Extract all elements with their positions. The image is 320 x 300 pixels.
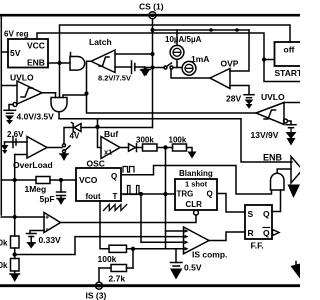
wire IS comp output to FF R bbox=[209, 232, 245, 241]
arrow FF Qbar output bbox=[273, 230, 280, 236]
bottom border of IC block bbox=[0, 284, 300, 287]
node 100k/2.7k bbox=[131, 247, 135, 251]
node G1-output / line1 junction bbox=[84, 91, 88, 95]
wire one-shot Q to FF S bbox=[217, 194, 245, 213]
comparator UVLO1 bbox=[10, 73, 42, 105]
comparator OVP bbox=[210, 59, 239, 89]
svg-text:off: off bbox=[284, 45, 295, 55]
svg-text:5pF: 5pF bbox=[40, 194, 55, 204]
driver output buffer bbox=[288, 157, 303, 199]
svg-text:Latch: Latch bbox=[89, 37, 112, 47]
svg-text:28V: 28V bbox=[226, 94, 241, 104]
node VCO control bbox=[163, 145, 167, 149]
pin IS (3) bbox=[86, 268, 107, 300]
resistor 300k bbox=[136, 136, 157, 152]
svg-text:Q: Q bbox=[263, 209, 270, 219]
block startup off/START bbox=[275, 42, 304, 78]
svg-text:S: S bbox=[248, 209, 254, 219]
wire ENB vertical to G2 bbox=[59, 63, 61, 98]
svg-text:100k: 100k bbox=[98, 254, 117, 264]
wire VCC top rail y=33 bbox=[37, 33, 300, 82]
wire fout column bbox=[100, 201, 109, 249]
wire 5V input from left bbox=[1, 51, 8, 53]
resistor 1Meg bbox=[1, 177, 76, 195]
svg-text:VCC: VCC bbox=[27, 41, 45, 51]
wire OVP output to switch bbox=[171, 69, 210, 78]
switch 1mA bbox=[164, 63, 182, 69]
wire G3 output to driver bbox=[277, 169, 291, 173]
node CS rail bbox=[150, 28, 154, 32]
node CS / latch input bbox=[150, 52, 154, 56]
svg-text:T: T bbox=[113, 192, 118, 201]
wire CS vertical bbox=[152, 19, 154, 128]
node buf tap bbox=[95, 125, 99, 129]
wire G2 output line2 bbox=[59, 112, 292, 162]
svg-text:CS (1): CS (1) bbox=[139, 2, 164, 12]
wire ENB output bbox=[48, 62, 70, 64]
wire ENB top rail y=25 bbox=[60, 25, 291, 63]
reference 8.2V/7.5V battery bbox=[98, 61, 145, 83]
wire startup box feed bbox=[264, 59, 275, 61]
wire UVLO2 + input bbox=[284, 102, 300, 104]
svg-text:R: R bbox=[248, 228, 254, 238]
svg-text:Q: Q bbox=[111, 172, 117, 181]
diode buf output bbox=[120, 144, 137, 152]
top border of IC block bbox=[0, 14, 300, 17]
ground CS left bbox=[142, 68, 150, 77]
comparator IS comp bbox=[184, 227, 228, 260]
diode 4V zener bbox=[70, 123, 82, 141]
wire buf input bbox=[98, 127, 102, 148]
svg-text:4V: 4V bbox=[70, 132, 80, 141]
reference 4.0V/3.5V battery bbox=[4, 103, 54, 125]
wire node down to 2.7k bbox=[132, 249, 134, 268]
svg-text:0.5V: 0.5V bbox=[184, 263, 202, 273]
svg-text:4.0V/3.5V: 4.0V/3.5V bbox=[17, 112, 55, 122]
svg-text:1Meg: 1Meg bbox=[25, 184, 47, 194]
capacitor 5pF bbox=[40, 180, 66, 205]
svg-text:-: - bbox=[46, 224, 49, 233]
svg-text:x1: x1 bbox=[104, 148, 112, 157]
comparator Latch bbox=[89, 37, 115, 73]
svg-text:UVLO: UVLO bbox=[10, 73, 34, 83]
reference 13V/9V battery bbox=[251, 119, 297, 146]
svg-text:10µA/5µA: 10µA/5µA bbox=[165, 35, 202, 44]
reference 0.33V battery bbox=[27, 231, 62, 249]
resistor 100k top bbox=[169, 136, 187, 152]
ground 100k bbox=[187, 148, 197, 159]
svg-text:1 shot: 1 shot bbox=[185, 180, 208, 189]
svg-text:0.33V: 0.33V bbox=[39, 235, 62, 245]
wire latch output to G1 bbox=[87, 61, 92, 93]
svg-text:Buf: Buf bbox=[104, 129, 118, 139]
wire ramp to IS comp input C bbox=[141, 194, 184, 242]
wire IS comp input A bbox=[166, 230, 184, 232]
svg-text:OverLoad: OverLoad bbox=[13, 160, 53, 170]
svg-text:ENB: ENB bbox=[27, 58, 45, 68]
svg-text:5V: 5V bbox=[10, 48, 21, 58]
waveform sawtooth fout bbox=[104, 205, 127, 211]
ground for 8.2V reference bbox=[141, 67, 149, 77]
ground discharge switch bbox=[60, 153, 68, 161]
wire OVP + input bbox=[230, 30, 249, 71]
divider resistor 20k top bbox=[0, 236, 19, 248]
svg-text:VCO: VCO bbox=[79, 175, 98, 185]
wire UVLO1 + input bbox=[1, 85, 17, 87]
wire OSC T to TRG bbox=[121, 193, 175, 195]
svg-text:CLR: CLR bbox=[186, 200, 203, 209]
svg-text:OSC: OSC bbox=[87, 159, 105, 169]
and-gate G1 (latch gate) bbox=[70, 53, 85, 71]
buffer Buf x1 bbox=[101, 129, 120, 159]
wire PWM + input bbox=[1, 216, 44, 218]
oscillator VCO/OSC block bbox=[76, 159, 121, 202]
svg-text:Q: Q bbox=[263, 228, 270, 238]
comparator 0.33V PWM bbox=[44, 213, 61, 234]
svg-text:8.2V/7.5V: 8.2V/7.5V bbox=[98, 74, 131, 83]
wire line2 stub to buf tap bbox=[97, 119, 99, 127]
node 5pF bbox=[59, 178, 63, 182]
svg-text:Blanking: Blanking bbox=[179, 169, 213, 178]
node 1Meg left bbox=[13, 178, 17, 182]
reference 28V battery bbox=[226, 94, 254, 109]
wire 300k to 100k bbox=[157, 147, 173, 149]
divider resistor 20k bottom bbox=[0, 259, 19, 272]
svg-text:100k: 100k bbox=[169, 136, 187, 145]
svg-text:13V/9V: 13V/9V bbox=[251, 130, 279, 140]
svg-text:OVP: OVP bbox=[221, 59, 239, 69]
svg-text:START: START bbox=[275, 68, 301, 78]
wire UVLO1 output to G2 bbox=[42, 92, 56, 94]
svg-text:IS comp.: IS comp. bbox=[192, 250, 227, 260]
svg-text:ENB: ENB bbox=[263, 153, 283, 163]
flip-flop F.F. box bbox=[245, 205, 272, 251]
wire OVP - input bbox=[230, 86, 249, 95]
regulator 6V reg box bbox=[4, 30, 48, 68]
svg-text:Q: Q bbox=[207, 190, 213, 199]
wire VCO node column bbox=[165, 148, 167, 249]
svg-text:2.7k: 2.7k bbox=[109, 274, 126, 284]
ground divider bbox=[10, 271, 20, 282]
comparator UVLO2 bbox=[256, 92, 285, 125]
reference 0.5V battery bbox=[170, 249, 202, 280]
svg-text:2.6V: 2.6V bbox=[7, 130, 24, 139]
svg-text:fout: fout bbox=[86, 192, 101, 201]
svg-text:0k: 0k bbox=[0, 261, 8, 270]
current source 1mA bbox=[182, 54, 209, 75]
wire line1 to UVLO2 output bbox=[87, 94, 257, 114]
node T/ramp bbox=[139, 192, 143, 196]
node rail OVP bbox=[235, 28, 239, 32]
wire divider column bbox=[14, 248, 16, 259]
resistor 2.7k bbox=[99, 265, 133, 284]
svg-text:TRG: TRG bbox=[177, 190, 194, 199]
one-shot Blanking block bbox=[175, 169, 217, 215]
node CS startup bbox=[150, 65, 154, 69]
arrow bottom right bbox=[291, 262, 301, 279]
current source 10uA/5uA bbox=[165, 30, 202, 68]
wire FF Q to G3 bbox=[272, 190, 281, 212]
node feedback column bbox=[13, 215, 17, 219]
svg-text:F.F.: F.F. bbox=[251, 241, 264, 251]
node divider bbox=[13, 252, 17, 256]
comparator OverLoad bbox=[13, 137, 53, 171]
pin CS (1) bbox=[139, 2, 164, 19]
left border wire bbox=[0, 16, 2, 215]
wire divider to IS comp input B bbox=[15, 237, 184, 255]
waveform square wave Q bbox=[123, 167, 134, 173]
node VCC/startup junction bbox=[262, 58, 266, 62]
wire OSC Q route bbox=[121, 166, 272, 195]
svg-text:6V reg: 6V reg bbox=[4, 30, 29, 39]
wire CS sense rail y=30 bbox=[153, 29, 250, 31]
wire PWM output to CLR bbox=[61, 215, 197, 223]
wire CS discharge path bbox=[98, 127, 153, 129]
svg-text:300k: 300k bbox=[136, 136, 154, 145]
wire 100k to IS comp input D bbox=[127, 248, 184, 250]
svg-text:+: + bbox=[45, 215, 49, 222]
wire overload - input bbox=[15, 154, 27, 156]
svg-text:0k: 0k bbox=[0, 239, 8, 248]
and-gate G3 (output gate) bbox=[271, 173, 285, 190]
switch overload discharge bbox=[63, 144, 71, 153]
reference 2.6V battery bbox=[1, 130, 27, 154]
node ENB junction bbox=[57, 61, 61, 65]
wire G1 node to G2 input bbox=[63, 95, 87, 98]
svg-text:UVLO: UVLO bbox=[261, 92, 285, 102]
svg-text:IS (3): IS (3) bbox=[86, 291, 107, 300]
and-gate G2 (3-input driver enable) bbox=[51, 93, 67, 112]
wire startup current path bbox=[146, 67, 164, 69]
node rail 10uA bbox=[209, 28, 213, 32]
wire overload output to switch bbox=[47, 147, 62, 149]
resistor 100k bottom bbox=[98, 245, 127, 264]
wire latch + input to CS line bbox=[115, 53, 153, 55]
wire overload feedback column bbox=[14, 155, 16, 237]
node T/IS bbox=[163, 192, 167, 196]
waveform pulses T bbox=[124, 186, 143, 195]
